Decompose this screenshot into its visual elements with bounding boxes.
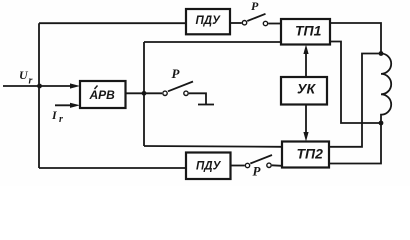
svg-text:r: r: [59, 114, 63, 125]
svg-text:ПДУ: ПДУ: [196, 15, 222, 27]
wire: coil bottom down and to TP2 lower right: [329, 123, 381, 164]
wire: UK to TP2 arrow down: [305, 105, 307, 137]
wire: loop bottom horizontal to TP2: [144, 145, 282, 148]
block PDU2 (bottom remote control unit): [186, 153, 231, 180]
wire: PDU1 to switch: [230, 22, 242, 24]
wire: bottom horizontal to PDU2: [39, 167, 186, 169]
node: loop junction: [142, 91, 147, 96]
switch P (middle) contact circle right: [184, 91, 188, 95]
svg-text:r: r: [29, 76, 33, 87]
wire: top horizontal to PDU1: [39, 22, 186, 24]
wire: ARV output to junction: [126, 92, 163, 94]
node: coil bottom junction: [379, 121, 384, 126]
switch P (top) blade: [247, 14, 265, 21]
wire: from middle switch to stub: [189, 93, 206, 104]
wire: loop top horizontal to TP1: [144, 41, 281, 43]
block PDU1 (top remote control unit): [186, 9, 230, 34]
svg-text:P: P: [253, 164, 262, 179]
svg-text:АРВ: АРВ: [89, 88, 116, 102]
svg-text:ТП1: ТП1: [295, 23, 322, 39]
switch P (top) contact circle left: [242, 21, 246, 25]
wire: coil bottom to TP1 lower-right stub: [329, 42, 381, 124]
wire: TP1 right top to coil top: [330, 23, 381, 54]
block TP2 (thyristor converter 2): [282, 142, 329, 168]
svg-text:P: P: [251, 0, 259, 13]
switch P (bottom) contact circle right: [267, 163, 271, 167]
switch P (top) contact circle right: [263, 21, 267, 25]
wire: coil top to left branch: [329, 54, 381, 147]
switch P (middle) blade: [168, 82, 193, 92]
switch P (bottom) contact circle left: [245, 163, 249, 167]
terminal bar of middle stub: [198, 104, 214, 106]
block UK (control logic unit): [281, 77, 327, 105]
switch P (middle) contact circle left: [163, 91, 167, 95]
svg-text:ТП2: ТП2: [297, 146, 324, 162]
wire: PDU2 to bottom switch: [231, 165, 245, 167]
wire: loop vertical: [143, 42, 145, 146]
wire: left vertical bus: [38, 23, 40, 168]
wire: Ur input stub: [3, 85, 39, 87]
wire: Ur arrow into ARV: [40, 85, 74, 87]
svg-text:УК: УК: [297, 81, 316, 97]
svg-text:P: P: [172, 66, 181, 81]
block TP1 (thyristor converter 1): [281, 19, 330, 45]
svg-text:ПДУ: ПДУ: [196, 161, 222, 173]
wire: top switch to TP1: [268, 23, 281, 25]
svg-text:U: U: [19, 68, 29, 82]
inductor LG (generator field winding): [381, 54, 391, 124]
block ARV (automatic voltage regulator): [95, 86, 98, 90]
node: coil top junction: [379, 51, 384, 56]
node: Ur junction: [37, 84, 42, 89]
wire: bottom switch to TP2: [272, 164, 282, 167]
svg-text:I: I: [51, 108, 58, 122]
switch P (bottom) blade: [250, 155, 272, 164]
wire: UK to TP1 arrow up: [305, 49, 307, 77]
wire: Ir arrow into ARV: [55, 104, 73, 106]
